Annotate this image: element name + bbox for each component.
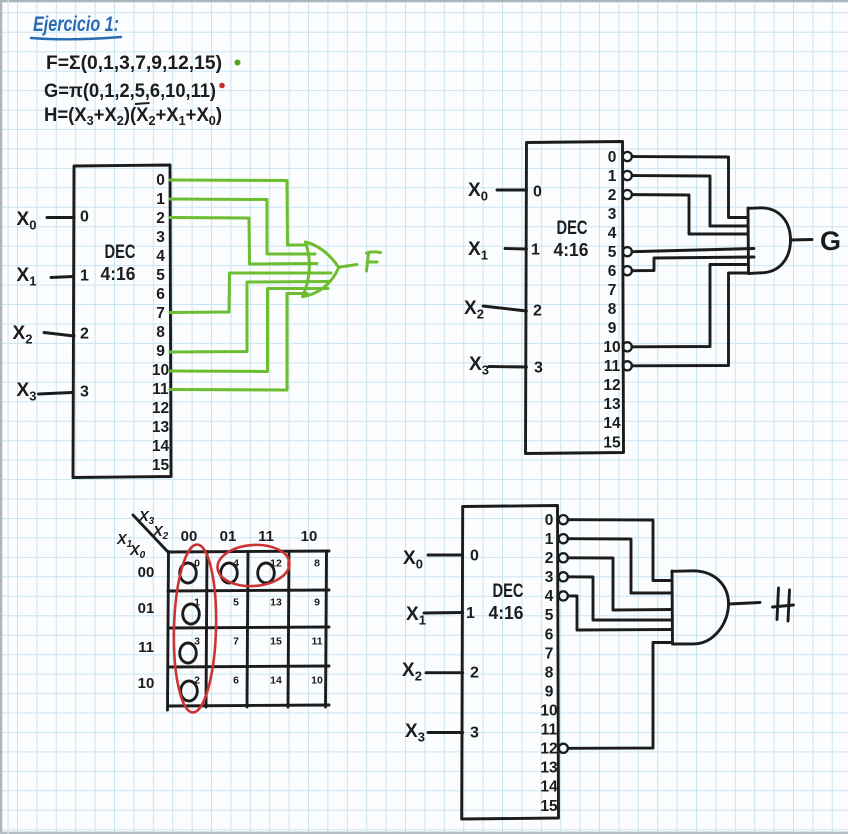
wire input X0 stub <box>47 216 74 219</box>
decoder U3 output pin numbers 0-15 <box>540 512 558 815</box>
wire U1 out 2 to OR gate <box>170 218 317 265</box>
or-gate F <box>303 242 357 297</box>
decoder U2 (DEC 4:16) box <box>526 142 624 454</box>
wire U3 out 12 to AND gate <box>568 643 672 749</box>
wire U2 out 11 to AND gate <box>632 273 748 366</box>
svg-text:3: 3 <box>608 206 617 223</box>
svg-text:7: 7 <box>233 636 239 648</box>
svg-text:0: 0 <box>533 184 542 201</box>
svg-text:10: 10 <box>138 675 155 692</box>
svg-text:2: 2 <box>156 210 165 227</box>
svg-text:8: 8 <box>608 301 617 318</box>
inverter bubble U2 out 10 <box>623 342 632 351</box>
svg-text:3: 3 <box>80 384 89 401</box>
svg-text:15: 15 <box>603 434 621 451</box>
svg-text:0: 0 <box>545 512 554 529</box>
output label H <box>773 588 794 621</box>
inverter bubble U3 out 0 <box>559 515 568 524</box>
svg-text:11: 11 <box>152 381 169 398</box>
svg-text:1: 1 <box>156 191 165 208</box>
output label F <box>367 252 381 271</box>
wire U1 out 11 to OR gate <box>170 294 307 391</box>
Karnaugh map minterm numbers <box>194 558 323 687</box>
svg-text:F=Σ(0,1,3,7,9,12,15): F=Σ(0,1,3,7,9,12,15) <box>46 53 222 74</box>
inverter bubble U2 out 0 <box>623 152 632 161</box>
wire U3 out 0 to AND gate <box>568 520 672 581</box>
inverter bubble U3 out 2 <box>559 553 568 562</box>
Karnaugh map axis label X1X0 <box>116 532 146 561</box>
inverter bubble U3 out 4 <box>559 591 568 600</box>
svg-text:5: 5 <box>608 244 617 261</box>
wire U2 out 6 to AND gate <box>632 257 754 271</box>
svg-text:Ejercicio 1:: Ejercicio 1: <box>33 13 119 36</box>
svg-text:3: 3 <box>470 725 479 742</box>
svg-text:2: 2 <box>608 187 617 204</box>
marker dot green <box>235 60 241 66</box>
svg-text:DEC: DEC <box>557 218 588 239</box>
svg-text:12: 12 <box>603 377 620 394</box>
svg-text:1: 1 <box>466 605 475 622</box>
svg-text:4: 4 <box>156 248 165 265</box>
svg-text:8: 8 <box>156 324 165 341</box>
svg-text:9: 9 <box>608 320 617 337</box>
Karnaugh map axis label X3X2 <box>138 509 169 542</box>
svg-text:10: 10 <box>603 339 620 356</box>
svg-text:12: 12 <box>540 741 557 758</box>
svg-text:4: 4 <box>545 588 554 605</box>
svg-text:0: 0 <box>156 172 165 189</box>
wire input X1 stub <box>51 277 73 278</box>
Karnaugh map 1-marks (O) <box>180 563 275 701</box>
decoder U2 output pin numbers 0-15 <box>603 149 621 452</box>
svg-text:DEC: DEC <box>105 242 136 263</box>
wire input X1 stub <box>505 247 527 250</box>
Karnaugh map grid <box>168 551 330 710</box>
wire input X1 stub <box>424 611 463 614</box>
wire U2 out 1 to AND gate <box>632 176 748 227</box>
svg-text:01: 01 <box>138 600 155 617</box>
wire input X2 stub <box>44 333 74 337</box>
svg-text:11: 11 <box>258 528 274 545</box>
svg-text:6: 6 <box>545 626 554 643</box>
wire U3 out 4 to AND gate <box>568 596 672 630</box>
marker dot red <box>219 83 225 89</box>
svg-text:7: 7 <box>608 282 617 299</box>
wire U1 out 0 to OR gate <box>170 180 306 245</box>
svg-text:1: 1 <box>80 268 89 285</box>
decoder U1 (DEC 4:16) box <box>73 165 171 478</box>
red grouping oval column 00 <box>172 544 218 713</box>
svg-text:5: 5 <box>545 607 554 624</box>
svg-text:9: 9 <box>314 597 320 609</box>
svg-text:15: 15 <box>270 636 282 648</box>
svg-text:1: 1 <box>608 168 617 185</box>
svg-text:7: 7 <box>156 305 165 322</box>
svg-text:5: 5 <box>233 597 239 609</box>
inverter bubble U2 out 6 <box>623 266 632 275</box>
wire input X3 stub <box>428 731 463 734</box>
inverter bubble U2 out 5 <box>623 247 632 256</box>
wire U2 out 2 to AND gate <box>632 195 748 234</box>
svg-text:12: 12 <box>152 400 169 417</box>
wire U2 out 10 to AND gate <box>632 265 748 347</box>
svg-text:2: 2 <box>533 303 542 320</box>
inverter bubble U3 out 3 <box>559 572 568 581</box>
wire U2 out 0 to AND gate <box>632 157 748 218</box>
svg-text:10: 10 <box>311 675 323 687</box>
svg-text:10: 10 <box>540 703 557 720</box>
decoder U3 (DEC 4:16) box <box>462 506 559 820</box>
and-gate G <box>748 208 812 274</box>
wire U1 out 1 to OR gate <box>170 199 315 254</box>
wire input X2 stub <box>426 671 463 674</box>
svg-text:13: 13 <box>540 760 558 777</box>
wire U3 out 1 to AND gate <box>568 539 672 593</box>
inverter bubble U2 out 1 <box>623 171 632 180</box>
svg-text:6: 6 <box>233 675 239 687</box>
svg-text:G=π(0,1,2,5,6,10,11): G=π(0,1,2,5,6,10,11) <box>44 81 216 102</box>
svg-text:G: G <box>820 226 841 256</box>
svg-text:4:16: 4:16 <box>554 240 589 260</box>
equation H = (X3+X2)(X2b+X1+X0) <box>44 103 222 128</box>
svg-text:13: 13 <box>603 396 621 413</box>
svg-text:11: 11 <box>604 358 621 375</box>
svg-text:7: 7 <box>545 645 554 662</box>
wire input X3 stub <box>489 365 527 368</box>
svg-text:10: 10 <box>301 528 318 545</box>
svg-text:14: 14 <box>540 779 558 796</box>
wire U2 out 5 to AND gate <box>632 249 754 252</box>
svg-text:14: 14 <box>152 438 170 455</box>
svg-text:11: 11 <box>311 636 322 648</box>
red grouping oval row 00 (cells 4,12) <box>216 543 291 589</box>
wire U1 out 9 to OR gate <box>170 282 330 353</box>
svg-text:6: 6 <box>608 263 617 280</box>
svg-text:6: 6 <box>156 286 165 303</box>
and-gate H <box>672 571 760 644</box>
svg-text:15: 15 <box>540 798 558 815</box>
svg-text:1: 1 <box>545 531 554 548</box>
svg-text:00: 00 <box>138 564 155 581</box>
wire input X3 stub <box>39 393 73 395</box>
svg-text:3: 3 <box>534 360 543 377</box>
svg-text:1: 1 <box>531 242 540 259</box>
svg-text:11: 11 <box>138 639 154 656</box>
inverter bubble U2 out 11 <box>623 361 632 370</box>
wire U3 out 2 to AND gate <box>568 558 672 610</box>
inverter bubble U2 out 2 <box>623 190 632 199</box>
svg-text:0: 0 <box>470 548 479 565</box>
svg-text:2: 2 <box>470 665 479 682</box>
wire U1 out 10 to OR gate <box>170 289 328 372</box>
svg-text:01: 01 <box>220 528 237 545</box>
svg-text:8: 8 <box>314 558 320 570</box>
wire input X0 stub <box>497 189 527 192</box>
svg-text:13: 13 <box>152 419 170 436</box>
svg-text:4:16: 4:16 <box>101 264 136 284</box>
decoder U1 output pin numbers 0-15 <box>152 172 170 474</box>
title "Ejercicio 1:" <box>31 13 121 39</box>
svg-text:14: 14 <box>603 415 621 432</box>
wire input X2 stub <box>483 306 527 311</box>
svg-text:5: 5 <box>156 267 165 284</box>
svg-text:4:16: 4:16 <box>489 603 524 623</box>
Karnaugh map axis diagonal <box>133 515 168 552</box>
svg-text:2: 2 <box>545 550 554 567</box>
svg-text:0: 0 <box>608 149 617 166</box>
inverter bubble U3 out 1 <box>559 534 568 543</box>
svg-text:10: 10 <box>152 362 169 379</box>
svg-text:3: 3 <box>545 569 554 586</box>
inverter bubble U3 out 12 <box>559 744 568 753</box>
svg-text:14: 14 <box>270 675 282 687</box>
svg-text:9: 9 <box>545 684 554 701</box>
svg-text:3: 3 <box>156 229 165 246</box>
svg-text:2: 2 <box>80 326 89 343</box>
Karnaugh map row headers <box>138 564 155 692</box>
svg-text:8: 8 <box>545 664 554 681</box>
svg-text:4: 4 <box>608 225 617 242</box>
Karnaugh map column headers <box>181 528 318 545</box>
wire input X0 stub <box>428 554 463 557</box>
svg-text:H=(X3+X2)(X2+X1+X0): H=(X3+X2)(X2+X1+X0) <box>44 105 222 128</box>
svg-text:9: 9 <box>156 343 165 360</box>
svg-text:DEC: DEC <box>493 581 524 602</box>
wire U1 out 7 to OR gate <box>170 273 331 313</box>
svg-text:00: 00 <box>181 528 198 545</box>
wire U3 out 3 to AND gate <box>568 577 672 620</box>
svg-text:15: 15 <box>152 457 170 474</box>
svg-text:0: 0 <box>80 209 89 226</box>
svg-text:11: 11 <box>541 722 558 739</box>
svg-text:13: 13 <box>270 597 282 609</box>
